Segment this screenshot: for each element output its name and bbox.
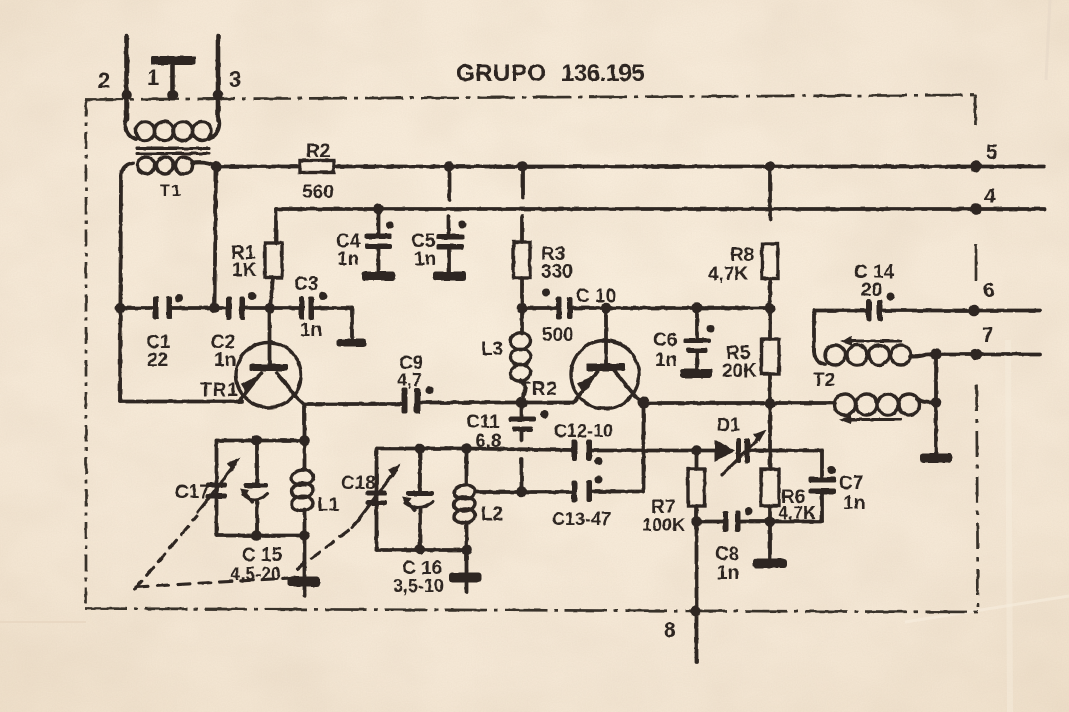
node dots left tank	[251, 435, 310, 541]
gang coupling dashed horizontal	[136, 578, 298, 588]
wire TR1 emitter line	[120, 400, 242, 404]
module boundary right dash between terminals 4 and 6	[975, 244, 978, 281]
svg-text:1: 1	[147, 65, 159, 90]
terminal label 7	[982, 324, 994, 347]
wire L2 tap to C13	[476, 490, 572, 494]
label C11	[466, 412, 500, 433]
label 560	[302, 182, 334, 203]
wire terminal 8	[695, 522, 699, 663]
wire bottom line R7 to C7	[697, 520, 823, 524]
left tank left edge	[215, 441, 219, 536]
label TR1	[200, 380, 239, 401]
pin label 3	[229, 67, 241, 92]
svg-text:1n: 1n	[300, 320, 322, 341]
svg-text:20: 20	[861, 280, 882, 301]
svg-text:TR1: TR1	[200, 380, 239, 401]
terminal label 4	[984, 185, 996, 208]
svg-text:GRUPO: GRUPO	[456, 60, 547, 87]
ground bar under C4	[362, 272, 395, 281]
inductor L2	[453, 449, 475, 551]
label C8	[715, 544, 739, 565]
ground bar under right tank	[449, 573, 481, 583]
label 1n C4	[337, 249, 359, 270]
node dot terminal 8 on border	[690, 606, 701, 617]
label TR2	[519, 379, 558, 400]
node dot C11 lead on tap wire	[516, 487, 527, 498]
label C3	[294, 274, 318, 295]
module boundary right corner segment	[974, 95, 977, 125]
capacitor C6 to ground	[684, 303, 715, 369]
node dot T2 to ground branch	[930, 348, 942, 360]
wire rail 6 with C14	[814, 309, 1040, 313]
label 500	[542, 325, 574, 346]
svg-text:L1: L1	[317, 495, 340, 516]
arrow above T2 upper winding	[840, 337, 901, 346]
svg-text:6: 6	[983, 279, 995, 302]
label 4.7 C9	[397, 370, 422, 390]
svg-text:C6: C6	[653, 330, 677, 351]
svg-text:T2: T2	[813, 370, 835, 391]
wire left vertical T1 secondary / emitter	[120, 176, 121, 402]
ground bar under C5	[433, 272, 466, 281]
label R3	[541, 244, 565, 265]
label C14	[854, 262, 895, 283]
label C6	[653, 330, 677, 351]
label D1	[717, 415, 740, 435]
node dot lower winding to vertical	[931, 397, 942, 408]
wire base line TR2	[522, 306, 770, 310]
terminal label 8	[664, 619, 676, 642]
wire T1 secondary down to base line	[209, 168, 220, 313]
svg-text:R2: R2	[306, 141, 330, 162]
node dot TR2 collector	[638, 397, 650, 409]
node dots right tank	[415, 443, 472, 555]
arrow below T2 lower winding	[839, 415, 900, 424]
ground bar under T2	[920, 453, 952, 463]
resistor R8 (hops rail 4)	[762, 161, 778, 308]
svg-text:22: 22	[147, 350, 168, 371]
node dot R3/L3/C10	[517, 303, 528, 314]
svg-text:4: 4	[984, 185, 996, 208]
capacitor C10	[542, 289, 573, 320]
label 22	[147, 350, 168, 371]
label 1n C7	[843, 493, 865, 514]
label R1	[231, 243, 256, 264]
label C13-47	[552, 509, 611, 529]
node dot R8/R5	[765, 303, 776, 314]
node dot R6 bottom	[765, 516, 776, 527]
svg-text:C17: C17	[175, 482, 210, 503]
svg-text:C13-47: C13-47	[552, 509, 611, 529]
module boundary left dash-dot line	[85, 100, 88, 609]
capacitor C1	[153, 294, 183, 320]
node dot T1 secondary to rail 5	[211, 161, 222, 172]
svg-text:D1: D1	[717, 415, 740, 435]
node dot L3/C11/emitter	[516, 397, 528, 409]
label 1n C6	[655, 350, 677, 371]
svg-text:3: 3	[229, 67, 241, 92]
resistor R5	[762, 308, 780, 404]
svg-text:C12-10: C12-10	[554, 421, 613, 441]
transformer T1 core	[137, 149, 209, 154]
label C2	[211, 332, 235, 353]
chassis bar symbol on pin 1	[151, 56, 196, 94]
capacitor C8	[723, 507, 753, 532]
svg-text:C7: C7	[839, 473, 863, 494]
transistor TR1	[236, 308, 305, 408]
module boundary right dash-dot lower section	[977, 385, 979, 612]
variable capacitor C17	[198, 458, 240, 513]
svg-text:T1: T1	[160, 183, 183, 200]
svg-text:C11: C11	[466, 412, 500, 433]
svg-text:1n: 1n	[717, 563, 739, 584]
ground bar under C6	[681, 369, 713, 378]
wire L1 tank to ground	[303, 536, 307, 597]
svg-text:C3: C3	[294, 274, 318, 295]
svg-text:1n: 1n	[655, 350, 677, 371]
label R2	[306, 141, 330, 162]
label 330	[541, 262, 573, 283]
svg-text:1K: 1K	[232, 260, 257, 281]
label 4.7K R6	[778, 503, 816, 523]
title GRUPO 136.195	[456, 60, 644, 87]
transformer T1 secondary winding	[121, 157, 216, 178]
pin label 1	[147, 65, 159, 90]
inductor L1	[291, 441, 314, 536]
inductor L3	[510, 308, 532, 403]
capacitor C4	[365, 204, 394, 272]
capacitor C5 (hops rail 4)	[436, 161, 467, 271]
svg-text:20K: 20K	[722, 361, 757, 382]
label R7	[651, 497, 675, 518]
module boundary top dash-dot line	[85, 95, 975, 100]
right tank top wire	[377, 447, 467, 451]
wire TR1 collector to C9	[305, 402, 402, 406]
svg-text:560: 560	[302, 182, 334, 203]
label R6	[781, 487, 805, 508]
svg-text:4,5-20: 4,5-20	[230, 564, 281, 584]
svg-text:7: 7	[982, 324, 994, 347]
node dot collector line at R5	[765, 398, 776, 409]
wire C12 to D1 line	[592, 449, 715, 453]
resistor R3 (hops rail 4)	[514, 161, 531, 308]
resistor R6	[761, 469, 779, 522]
label C9	[399, 353, 423, 374]
terminal 5 dot	[970, 161, 982, 173]
wire vertical join TR2 collector / C12 / C13	[642, 403, 646, 492]
label C17	[175, 482, 210, 503]
label 4,7K R8	[708, 264, 748, 285]
svg-text:4,7: 4,7	[397, 370, 422, 390]
wire base line TR1	[120, 306, 352, 310]
wire R5/R6 vertical through lines	[768, 404, 772, 470]
wire rail 7	[936, 352, 1040, 356]
label 1n C5	[414, 249, 436, 270]
varicap diode D1	[715, 430, 767, 476]
left tank top wire	[217, 439, 305, 443]
label 3,5-10	[393, 576, 444, 596]
label L1	[317, 495, 340, 516]
terminal 4 dot	[970, 203, 982, 215]
svg-text:1n: 1n	[414, 249, 436, 270]
wire C9 to TR2 emitter	[421, 401, 574, 405]
transformer T1 primary lead pin 2	[124, 36, 129, 120]
svg-text:3,5-10: 3,5-10	[393, 576, 444, 596]
ground bar under left tank	[287, 577, 320, 587]
label 100K	[642, 515, 685, 535]
right tank bottom wire	[377, 548, 467, 552]
node dot TR2 base	[601, 303, 612, 314]
label R5	[726, 343, 751, 364]
label C15	[242, 545, 283, 566]
label 6.8	[475, 431, 501, 452]
variable capacitor C18	[352, 464, 401, 529]
svg-text:1n: 1n	[337, 249, 359, 270]
right tank left edge	[375, 449, 379, 551]
wire rail4 left corner down to R1	[274, 209, 278, 243]
terminal label 5	[986, 141, 998, 164]
wire C3 to ground	[350, 308, 354, 339]
transformer T1 primary lead pin 3	[216, 36, 221, 120]
label C16	[402, 558, 442, 579]
label C4	[336, 231, 361, 252]
label C10	[576, 286, 616, 307]
wire R6 to ground	[768, 522, 772, 560]
capacitor C3	[299, 292, 327, 320]
capacitor C14	[866, 293, 895, 322]
node dot pin 1	[167, 90, 178, 101]
ground bar right of C3	[337, 339, 366, 347]
label C1	[146, 332, 171, 353]
node dot pin 2	[121, 90, 132, 101]
capacitor C2	[226, 292, 256, 320]
node dot R7 bottom	[691, 516, 702, 527]
transformer T1 primary winding	[125, 114, 219, 141]
svg-text:136.195: 136.195	[561, 60, 644, 87]
terminal 7 dot	[970, 349, 982, 361]
label C7	[839, 473, 863, 494]
wire rail 4	[276, 207, 1044, 211]
svg-text:L3: L3	[481, 339, 503, 360]
label R8	[730, 245, 754, 266]
label 20	[861, 280, 882, 301]
wire rail 5 (supply line with R2)	[217, 165, 1045, 169]
label 4,5-20	[230, 564, 281, 584]
pin label 2	[98, 68, 110, 93]
wire TR1 collector down to tank L1	[303, 405, 307, 441]
ground bar under R6	[753, 559, 787, 569]
label L3	[481, 339, 503, 360]
resistor R7	[688, 451, 705, 522]
label C5	[411, 231, 436, 252]
node dot left of C1	[115, 303, 126, 314]
label T1	[160, 183, 183, 200]
capacitor C7	[809, 451, 837, 522]
wire tank top to C12	[467, 449, 572, 451]
label 1n C8	[717, 563, 739, 584]
node dot pin 3	[213, 90, 224, 101]
wire C14 corner down to T2	[812, 311, 816, 353]
capacitor C12	[572, 440, 603, 466]
svg-text:C 15: C 15	[242, 545, 283, 566]
svg-text:1n: 1n	[214, 350, 236, 371]
svg-text:C8: C8	[715, 544, 739, 565]
label C12-10	[554, 421, 613, 441]
svg-text:C18: C18	[341, 473, 376, 494]
module boundary bottom dash-dot line	[85, 609, 978, 613]
svg-text:500: 500	[542, 325, 574, 346]
trimmer capacitor C15	[240, 441, 268, 536]
wire L2 tank to ground	[465, 550, 469, 592]
terminal 6 dot	[968, 305, 980, 317]
label 1n C3	[300, 320, 322, 341]
transformer T2 upper winding	[814, 345, 936, 365]
svg-text:R8: R8	[730, 245, 754, 266]
svg-text:2: 2	[98, 68, 110, 93]
svg-text:330: 330	[541, 262, 573, 283]
resistor R1	[265, 243, 282, 308]
label C18	[341, 473, 376, 494]
gang coupling dashed diagonal to C18	[297, 530, 349, 569]
svg-text:5: 5	[986, 141, 998, 164]
label 20K	[722, 361, 757, 382]
wire TR2 collector line to T2 lower winding	[644, 401, 836, 405]
trimmer capacitor C16	[402, 449, 434, 550]
capacitor C13	[572, 476, 603, 503]
svg-text:L2: L2	[481, 504, 503, 525]
svg-text:1n: 1n	[843, 493, 865, 514]
label 1n C2	[214, 350, 236, 371]
gang coupling dashed diagonal to C17	[135, 516, 197, 589]
wire D1 cathode to C7 corner	[750, 449, 822, 453]
left tank bottom wire	[217, 534, 305, 538]
capacitor C11 (hops C12 wire)	[509, 403, 549, 493]
svg-text:8: 8	[664, 619, 676, 642]
node dot R7 top	[691, 445, 702, 456]
resistor R2	[300, 161, 334, 173]
transistor TR2	[571, 308, 644, 409]
wire C13 to join	[592, 490, 644, 494]
capacitor C9	[402, 387, 434, 414]
svg-text:100K: 100K	[642, 515, 685, 535]
svg-text:C 10: C 10	[576, 286, 616, 307]
transformer T2 lower winding	[835, 394, 937, 415]
label 1K	[232, 260, 257, 281]
label T2	[813, 370, 835, 391]
wire T2 junction down to ground	[934, 354, 938, 453]
node dot R1/TR1 base	[265, 303, 276, 314]
svg-text:4,7K: 4,7K	[708, 264, 748, 285]
terminal label 6	[983, 279, 995, 302]
label L2	[481, 504, 503, 525]
